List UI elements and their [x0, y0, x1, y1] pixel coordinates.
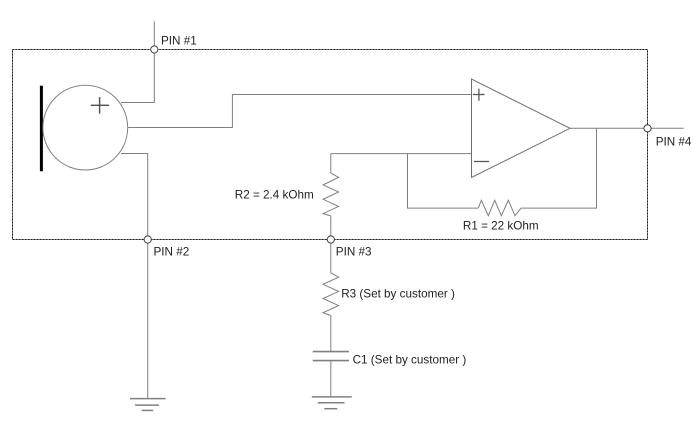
svg-text:PIN #1: PIN #1: [161, 35, 197, 48]
svg-text:R2 = 2.4 kOhm: R2 = 2.4 kOhm: [235, 189, 314, 202]
svg-text:PIN #3: PIN #3: [336, 246, 372, 259]
svg-text:C1 (Set by customer ): C1 (Set by customer ): [353, 354, 467, 367]
svg-text:PIN #2: PIN #2: [154, 246, 190, 259]
svg-text:R1 = 22 kOhm: R1 = 22 kOhm: [463, 219, 539, 232]
svg-text:R3 (Set by customer ): R3 (Set by customer ): [341, 288, 455, 301]
svg-text:PIN #4: PIN #4: [656, 136, 692, 149]
